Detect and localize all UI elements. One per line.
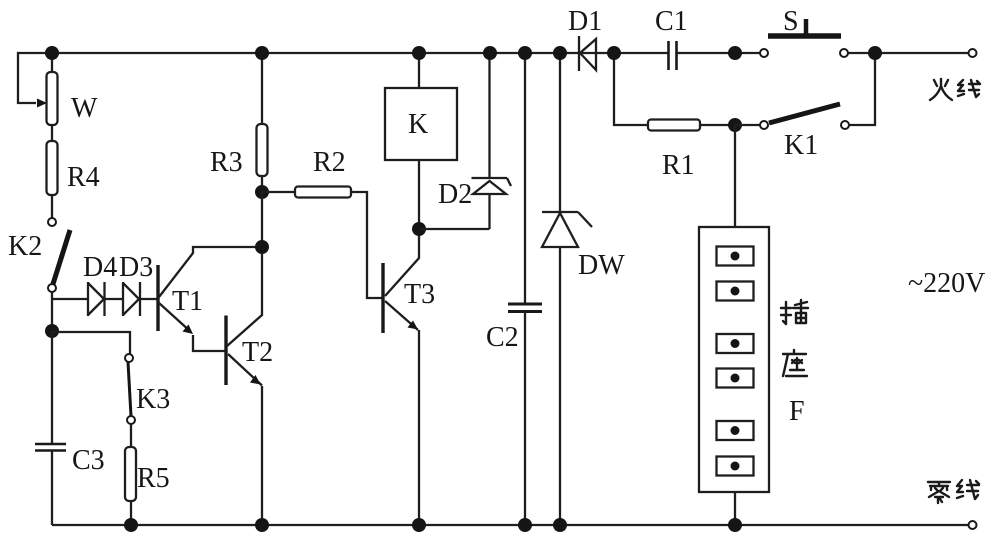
socket outlet 2	[717, 282, 754, 301]
wire K3 branch	[52, 332, 130, 354]
node R1 right K1 junction	[728, 118, 742, 132]
capacitor C3	[35, 331, 66, 525]
svg-text:D3: D3	[119, 252, 153, 283]
diode D4	[88, 282, 123, 316]
svg-text:T3: T3	[404, 279, 435, 310]
resistor R5	[125, 447, 136, 525]
svg-text:R2: R2	[313, 147, 346, 178]
node top rail at D1 right	[607, 46, 621, 60]
label socket cha (插)	[781, 300, 808, 324]
switch K3	[125, 354, 135, 447]
node bottom rail at C2	[518, 518, 532, 532]
label neutral wire (零线)	[928, 480, 979, 503]
capacitor C2	[508, 53, 542, 525]
svg-text:D1: D1	[568, 6, 602, 37]
socket outlet 4	[717, 369, 754, 388]
node top rail at K	[412, 46, 426, 60]
label socket zuo (座)	[783, 350, 807, 376]
resistor R4	[47, 141, 58, 218]
svg-text:W: W	[71, 93, 98, 124]
resistor R1	[614, 53, 735, 131]
svg-text:K2: K2	[8, 231, 42, 262]
potentiometer W	[37, 53, 58, 141]
socket outlet 5	[717, 421, 754, 440]
wire K1 node down to socket	[734, 125, 736, 227]
node bottom rail at DW	[553, 518, 567, 532]
node bottom rail at socket	[728, 518, 742, 532]
wire top rail middle segment (C1 right plate to S left terminal)	[677, 52, 760, 54]
node top rail at DW	[553, 46, 567, 60]
node junction left (base row)	[45, 324, 59, 338]
switch K1	[735, 53, 875, 129]
svg-text:R3: R3	[210, 147, 243, 178]
switch K2	[48, 218, 70, 331]
resistor R2	[262, 187, 383, 299]
node top rail at C1 right	[728, 46, 742, 60]
svg-text:C1: C1	[655, 6, 688, 37]
resistor R3	[257, 53, 268, 192]
wire D2 branch horizontal	[419, 228, 490, 230]
terminal bottom right	[969, 521, 977, 529]
relay coil K	[385, 53, 457, 229]
transistor T2	[226, 315, 262, 525]
socket outlet 6	[717, 457, 754, 476]
svg-text:T2: T2	[242, 337, 273, 368]
wire top rail right segment (S right terminal to right terminal)	[848, 52, 969, 54]
node top rail at R3	[255, 46, 269, 60]
socket outlet 3	[717, 334, 754, 353]
diode D1	[579, 36, 596, 71]
node top rail at S right	[868, 46, 882, 60]
node top rail at D2	[483, 46, 497, 60]
svg-text:R1: R1	[662, 150, 695, 181]
svg-text:D2: D2	[438, 179, 472, 210]
svg-text:S: S	[783, 6, 799, 37]
svg-text:D4: D4	[83, 252, 117, 283]
node T1 collector junction	[255, 240, 269, 254]
wire top live rail left segment	[18, 53, 668, 103]
svg-text:T1: T1	[172, 286, 203, 317]
node T3 collector junction	[412, 222, 426, 236]
wire base row to D4	[52, 298, 88, 300]
transistor T3	[383, 229, 419, 525]
diode D3	[123, 282, 158, 316]
push switch S	[760, 19, 848, 57]
node bottom rail at T2 emitter	[255, 518, 269, 532]
svg-text:K: K	[408, 109, 428, 140]
wire bottom neutral rail	[52, 524, 969, 526]
diode D2	[472, 53, 512, 229]
node top rail at W	[45, 46, 59, 60]
svg-text:F: F	[789, 396, 805, 427]
node R3 bottom	[255, 185, 269, 199]
wire R3 node down to T1 collector node	[261, 192, 263, 316]
node bottom rail at R5	[124, 518, 138, 532]
svg-text:C2: C2	[486, 322, 519, 353]
svg-text:K1: K1	[784, 130, 818, 161]
svg-text:DW: DW	[578, 250, 625, 281]
svg-text:R5: R5	[137, 463, 170, 494]
node bottom rail at T3	[412, 518, 426, 532]
svg-text:~220V: ~220V	[908, 268, 985, 299]
svg-text:K3: K3	[136, 384, 170, 415]
socket F box	[699, 227, 769, 525]
svg-text:C3: C3	[72, 445, 105, 476]
capacitor C1	[669, 41, 677, 70]
zener diode DW	[542, 53, 592, 525]
terminal top right	[969, 49, 977, 57]
socket outlet 1	[717, 247, 754, 266]
svg-text:R4: R4	[67, 162, 100, 193]
label live wire (火线)	[930, 79, 980, 100]
transistor T1	[158, 247, 262, 351]
node top rail at C2	[518, 46, 532, 60]
